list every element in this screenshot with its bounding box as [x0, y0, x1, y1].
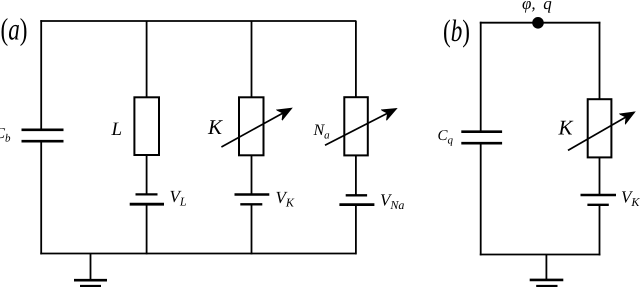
wire Na branch top	[355, 21, 357, 97]
battery VNa	[339, 195, 374, 204]
wire Na branch bottom	[355, 205, 357, 255]
wire L branch bottom	[146, 204, 148, 254]
wire Na branch middle	[355, 155, 357, 195]
wire top (b)	[480, 22, 601, 24]
battery VK (b)	[581, 195, 617, 205]
wire L branch top	[146, 21, 148, 97]
svg-text:K: K	[558, 116, 574, 140]
capacitor Cq	[461, 132, 502, 144]
wire K branch bottom	[251, 204, 253, 254]
arrow through K	[221, 109, 291, 147]
svg-text:VNa: VNa	[380, 191, 404, 213]
battery VL	[130, 194, 164, 204]
wire bottom (b)	[480, 254, 601, 256]
wire left (a) lower	[40, 142, 42, 254]
ground (a)	[74, 254, 107, 287]
wire left (a) upper	[40, 20, 42, 129]
svg-text:φ, q: φ, q	[522, 0, 552, 13]
wire K (b) middle	[599, 157, 601, 195]
node phi,q (dot)	[532, 17, 544, 29]
wire L branch middle	[146, 155, 148, 194]
wire right (b) top	[599, 22, 601, 99]
variable element Na (box)	[344, 97, 368, 155]
wire top (a)	[40, 20, 356, 22]
ground (b)	[530, 255, 564, 287]
variable element K (b) (box)	[588, 99, 612, 157]
svg-text:VK: VK	[276, 188, 295, 210]
svg-text:L: L	[111, 119, 123, 140]
capacitor Cb	[22, 130, 64, 141]
wire K branch middle	[251, 155, 253, 194]
variable element K (box)	[239, 97, 264, 155]
svg-text:(a): (a)	[1, 12, 28, 47]
wire K (b) bottom	[599, 205, 601, 256]
svg-text:Cq: Cq	[438, 128, 454, 147]
battery VK (a)	[235, 195, 270, 205]
wire left (b) lower	[480, 144, 482, 255]
svg-text:Na: Na	[313, 122, 331, 142]
svg-text:(b): (b)	[443, 13, 470, 48]
arrow through Na	[325, 109, 396, 145]
svg-text:Cb: Cb	[0, 126, 11, 145]
svg-text:VL: VL	[170, 187, 187, 209]
wire bottom (a)	[40, 253, 356, 255]
svg-text:VK: VK	[621, 188, 640, 210]
arrow through K (b)	[568, 112, 634, 150]
inductor L (box)	[134, 97, 159, 155]
svg-text:K: K	[207, 115, 223, 139]
wire left (b) upper	[480, 22, 482, 131]
wire K branch top	[251, 21, 253, 97]
